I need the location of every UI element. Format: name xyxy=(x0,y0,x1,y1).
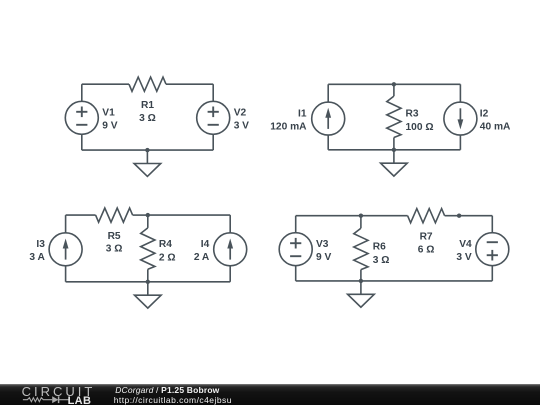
svg-text:6 Ω: 6 Ω xyxy=(418,244,435,255)
svg-text:9 V: 9 V xyxy=(316,252,331,263)
svg-text:V1: V1 xyxy=(102,108,115,119)
svg-text:120 mA: 120 mA xyxy=(270,121,307,132)
svg-text:3 Ω: 3 Ω xyxy=(106,244,123,255)
svg-text:I1: I1 xyxy=(298,109,307,120)
svg-text:R4: R4 xyxy=(159,239,172,250)
svg-text:2 A: 2 A xyxy=(194,252,210,263)
svg-text:100 Ω: 100 Ω xyxy=(406,122,434,133)
svg-text:V2: V2 xyxy=(234,108,247,119)
svg-text:9 V: 9 V xyxy=(102,121,117,132)
svg-text:3 V: 3 V xyxy=(456,252,471,263)
svg-text:2 Ω: 2 Ω xyxy=(159,252,176,263)
svg-text:3 V: 3 V xyxy=(234,121,249,132)
svg-text:R3: R3 xyxy=(406,109,419,120)
svg-text:V4: V4 xyxy=(459,239,472,250)
svg-text:V3: V3 xyxy=(316,239,329,250)
svg-text:R7: R7 xyxy=(420,232,433,243)
svg-text:I3: I3 xyxy=(36,239,45,250)
svg-text:3 A: 3 A xyxy=(29,252,45,263)
svg-text:I4: I4 xyxy=(201,239,210,250)
svg-text:3 Ω: 3 Ω xyxy=(373,255,390,266)
svg-text:40 mA: 40 mA xyxy=(480,121,511,132)
svg-text:R5: R5 xyxy=(108,231,121,242)
svg-text:R1: R1 xyxy=(141,100,154,111)
svg-text:I2: I2 xyxy=(480,109,489,120)
svg-text:3 Ω: 3 Ω xyxy=(139,113,156,124)
svg-text:R6: R6 xyxy=(373,242,386,253)
